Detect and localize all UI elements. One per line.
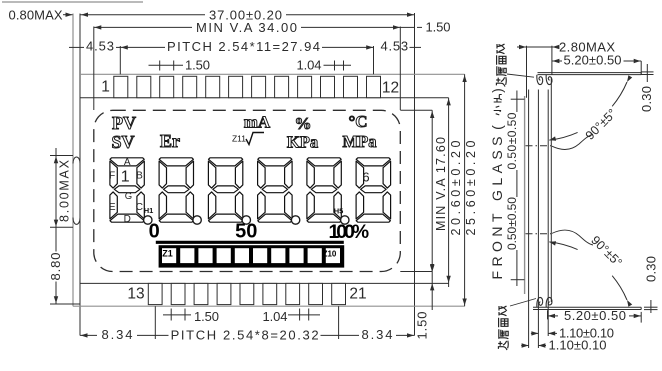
svg-text:5.20±0.50: 5.20±0.50 [564,52,622,67]
dim 1.10 lower line [521,343,546,347]
VA left extension line [93,27,95,111]
dim 2.80MAX line [517,45,559,49]
VA right extension line [399,27,401,111]
svg-text:H1: H1 [144,206,154,215]
svg-text:8.34: 8.34 [102,327,133,342]
dim 5.20 bottom line [548,314,559,318]
annunciator SV [111,132,134,152]
dim 0.30 bottom marks [644,300,658,313]
label shuangmian-mobian bottom [498,306,508,350]
bargraph scale line [156,241,344,244]
dim 0.30 top marks [642,64,654,82]
svg-text:SV: SV [111,132,134,152]
bargraph box [159,245,345,267]
7-segment digit 2 [159,158,193,222]
svg-text:100%: 100% [329,221,370,243]
svg-text:Z11: Z11 [232,133,246,143]
dim PITCH top line right [322,45,374,49]
bargraph label 50 [235,220,257,242]
side bottom hooks [537,297,552,307]
viewing area dashed outline [94,110,401,271]
dim 4.53 left text [86,39,114,54]
dim 20.60 line [446,98,450,287]
digit1 segment label E [109,202,116,213]
svg-text:E: E [109,202,116,213]
dim 8.34 left text [102,327,133,342]
dim 1.50 bottom text [194,309,219,324]
svg-text:0.80MAX: 0.80MAX [9,7,63,22]
dim 1.50 top pinwidth ticks [149,61,184,71]
bottom pin ledge line [80,282,449,284]
dim 1.04 bottom ticks [288,309,320,321]
dim 1.10 upper line [531,331,557,335]
svg-text:KPa: KPa [287,132,318,151]
dim left vertical line bottom [54,282,58,305]
side glass right edge [550,78,552,302]
bend angle text top [583,106,620,143]
annunciator square-root symbol [246,133,264,145]
svg-text:C: C [136,202,143,213]
dim 0.30 bottom text [643,256,658,282]
dim 5.20 bottom text [564,308,626,323]
digit1 label 1 [121,169,130,186]
svg-text:F: F [109,171,115,182]
annunciator PV [112,113,136,133]
dim 25.60 text [464,140,478,235]
svg-text:MIN V.A 17.60: MIN V.A 17.60 [434,137,448,231]
dim 8.34 left line2 [137,334,169,336]
left connector capsule top cap [73,157,80,164]
digit1 segment label B [136,171,143,182]
pitch ext line pin13 [154,306,156,339]
side glass plate line3 [547,90,549,304]
dim 0.50 lower line [511,250,525,286]
svg-text:%: % [295,114,312,133]
dim 8.34 right line2 [396,333,415,337]
dim 1.50 topright text [426,19,451,34]
digit1 segment label F [109,171,115,182]
dim 1.50 bottomright line [430,255,434,310]
dim 0.50 lower text [505,197,519,250]
glass ext line plate2 bottom [537,304,539,349]
dim 5.20 top line [552,59,562,63]
dim 5.20 bottom line2 [629,314,641,318]
dim 1.10 upper text [559,325,614,340]
7-segment digit 5 [307,158,341,222]
svg-text:1: 1 [121,169,130,186]
svg-text:50: 50 [235,220,257,242]
dim 1.04 bottom text [263,309,288,324]
annunciator Z11 label [232,133,246,143]
svg-text:G: G [125,191,132,202]
annunciator percent [295,114,312,133]
dim PITCH top line left [120,45,165,49]
dim 8.00MAX text [57,159,71,222]
svg-text:0.30: 0.30 [643,256,658,282]
dim 37.00 line left [81,13,206,17]
bend angle arc top [549,75,632,140]
svg-text:1.04: 1.04 [297,57,322,72]
label shuangmian-mobian top [496,44,506,87]
dim 0.30 top text [639,86,654,112]
svg-text:13: 13 [127,286,144,303]
dim 1.50 bottomright text [414,312,429,340]
dim 5.20 top text [564,52,622,67]
svg-text:(: ( [489,125,505,130]
annunciator mA [244,112,271,131]
dim 0.50 upper line [511,91,525,113]
svg-text:A: A [124,157,131,168]
svg-text:21: 21 [349,286,366,303]
dim 0.50 upper text [505,112,519,169]
VA bottom ext to right [400,271,432,273]
svg-text:0.50±0.50: 0.50±0.50 [505,112,519,169]
annunciator degC [348,112,367,131]
svg-text:8.00MAX: 8.00MAX [57,159,71,222]
bargraph label 0 [149,220,160,242]
7-segment digit 4 [258,158,293,222]
dim 25.60 line [462,74,466,306]
svg-text:): ) [489,88,505,93]
7-segment digit 3 [208,158,242,222]
svg-text:0: 0 [149,220,160,242]
dim 1.50 top text [185,57,210,72]
top pin ledge line [80,97,449,99]
bend angle text bottom [588,233,625,270]
svg-text:5.20±0.50: 5.20±0.50 [564,308,626,323]
digit1 segment label G [125,191,132,202]
svg-text:PITCH 2.54*11=27.94: PITCH 2.54*11=27.94 [167,39,320,54]
svg-text:PV: PV [112,113,136,133]
bottom pins 13-21 [148,283,345,304]
glass bottom edge line [73,305,465,307]
pitch ext line pin12 [373,46,375,74]
side glass polarizer line [524,96,526,294]
dim 37.00 text [209,8,282,23]
pitch ext line pin21 [338,306,340,339]
7-segment digit 6 [356,158,391,222]
decimal point circles H1-H5 [144,216,349,224]
side top pin bar [538,73,642,75]
pitch ext line pin1 [119,46,121,74]
svg-text:MPa: MPa [343,132,377,151]
svg-text:8.34: 8.34 [362,327,393,342]
dim 8.34 left line [80,333,97,337]
dim 2.80MAX ext left [526,46,528,98]
svg-text:1.50: 1.50 [426,19,451,34]
bottom pin label 13 [127,286,144,303]
svg-text:0.30: 0.30 [639,86,654,112]
digit1 segment label A [124,157,131,168]
dim 4.53 left line [116,46,120,48]
dim 0.50 mid line [516,170,518,197]
bargraph label 100% [329,221,370,243]
dim MIN V.A 34.00 text [196,20,297,35]
dim 5.20 top tick right [640,61,642,75]
dim 4.53 right text [381,39,409,54]
leader line top [507,74,534,77]
svg-text:mA: mA [244,112,271,131]
dim PITCH top text [167,39,320,54]
glass ext line plate3 bottom [547,304,549,337]
svg-text:8.80: 8.80 [48,253,63,281]
dim 5.20 bottom tick left [547,310,549,319]
svg-text:MIN V.A 34.00: MIN V.A 34.00 [196,20,297,35]
svg-text:Z1: Z1 [162,249,173,259]
leader line bottom [510,299,536,307]
svg-text:0.50±0.50: 0.50±0.50 [505,197,519,250]
dim 1.10 lower text [549,338,607,353]
seal centerline lower [526,230,594,245]
svg-text:H5: H5 [334,206,344,215]
top pins 1-12 [114,76,381,97]
dim PITCH bottom text [171,328,319,343]
dim 1.04 top ticks [324,61,352,71]
seal centerline upper [526,135,594,150]
FRONT GLASS label [489,88,505,279]
svg-text:12: 12 [382,80,399,97]
bottom pin label 21 [349,286,366,303]
side glass plate line1 [528,90,530,304]
svg-text:°C: °C [348,112,367,131]
dim 4.53 left tick [69,46,84,48]
dim 8.00MAX tick top [50,155,73,157]
label H5 [334,206,344,215]
digit6 label 6 [362,170,369,185]
side bottom pin bar [533,307,641,309]
dim left vertical line top [54,148,58,252]
annunciator Er [160,131,180,151]
dim 4.53 right line [410,46,422,48]
dim 5.20 bottom tick right [640,312,642,323]
annunciator MPa [343,132,377,151]
svg-text:FRONT GLASS: FRONT GLASS [489,137,505,280]
bend angle arc bottom [549,241,632,306]
svg-text:B: B [136,171,143,182]
svg-text:1.10±0.10: 1.10±0.10 [549,338,607,353]
side glass plate line2 [537,90,539,304]
svg-text:1.50: 1.50 [414,312,429,340]
dim 0.80MAX text [9,7,63,22]
glass left edge inner line [79,14,81,336]
dim 20.60 text [449,140,463,235]
dim 0.80MAX leader [63,13,73,17]
svg-text:D: D [124,214,131,225]
top border line [2,1,143,3]
VA top ext to right [400,109,432,111]
glass top edge line [80,73,465,75]
svg-text:Z10: Z10 [323,249,337,258]
dim 8.80 text [48,253,63,281]
dim 1.50 topright line [400,26,422,28]
dim MIN V.A 34.00 line left [94,25,192,29]
svg-text:1.04: 1.04 [263,309,288,324]
svg-text:4.53: 4.53 [86,39,114,54]
dim MIN V.A 17.60 line [430,110,434,271]
dim 8.34 right line [321,334,360,336]
top pin label 12 [382,80,399,97]
dim MIN V.A 17.60 text [434,137,448,231]
left connector capsule bottom cap [73,218,80,225]
bargraph label Z1 [162,249,173,259]
dim 2.80MAX text [559,40,615,55]
svg-text:1.50: 1.50 [185,57,210,72]
digit1 segment label C [136,202,143,213]
dim 8.80 tick bottom [50,303,80,305]
glass left edge outer line [72,14,74,307]
7-segment digit 1 [110,158,144,222]
svg-text:1: 1 [101,79,110,96]
top pin label 1 [101,79,110,96]
dim 5.20 top line2 [624,59,642,63]
label H1 [144,206,154,215]
bargraph label Z10 [323,249,337,258]
dim 1.50 bottom ticks [163,309,191,321]
svg-text:1.50: 1.50 [194,309,219,324]
dim 1.04 top text [297,57,322,72]
glass ext line plate1 bottom [528,304,530,349]
svg-text:Er: Er [160,131,180,151]
dim 2.80MAX ext right [551,46,553,75]
bargraph cells Z1-Z10 [162,248,340,263]
svg-text:4.53: 4.53 [381,39,409,54]
dim MIN V.A 34.00 line right [301,25,400,29]
dim 37.00 line right [286,13,414,17]
dim 8.34 right text [362,327,393,342]
digit1 segment label D [124,214,131,225]
svg-text:6: 6 [362,170,369,185]
glass right edge line [414,13,416,336]
side top hooks [537,75,552,85]
annunciator KPa [287,132,318,151]
dim 8.00MAX tick bottom [50,226,73,228]
